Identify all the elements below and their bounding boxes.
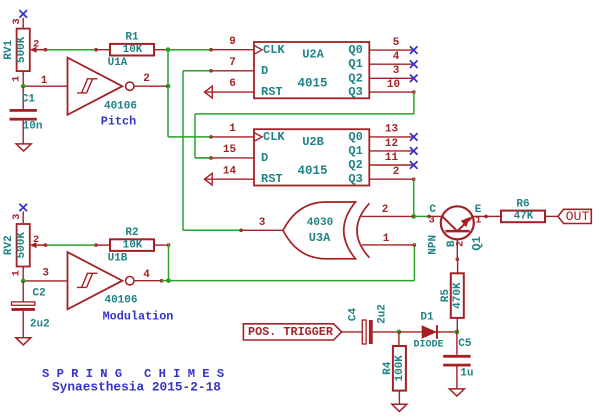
pin name Q1 (U2A) — [348, 57, 362, 71]
subtitle Synaesthesia — [52, 379, 221, 394]
svg-text:7: 7 — [229, 57, 236, 69]
svg-text:11: 11 — [385, 152, 399, 164]
label Q1 — [470, 236, 484, 250]
transistor Q1 (NPN) — [441, 206, 474, 239]
pin 15 of U2B — [211, 157, 254, 159]
resistor R5 — [451, 273, 464, 318]
svg-text:Q1: Q1 — [348, 144, 362, 158]
svg-text:10K: 10K — [123, 44, 143, 56]
wire RV1 wiper to R1 — [46, 49, 97, 51]
value 10K — [123, 44, 143, 56]
svg-text:3: 3 — [11, 214, 23, 220]
svg-text:R1: R1 — [125, 32, 139, 44]
value 500K (RV1) — [16, 36, 28, 63]
svg-text:2: 2 — [33, 39, 39, 51]
svg-text:40106: 40106 — [104, 101, 137, 113]
pin end dots RV1/R1 — [44, 48, 97, 51]
label C2 — [32, 288, 45, 300]
pin 11 Q2 of U2B — [369, 164, 413, 166]
pin name E — [475, 204, 482, 216]
pin 1 of RV1 — [22, 71, 24, 86]
wire E to R6 — [486, 215, 501, 217]
no-connect Q0 U2A — [410, 46, 418, 54]
pin of C1 bottom — [22, 121, 24, 144]
svg-text:DIODE: DIODE — [413, 340, 443, 351]
ground below C2 — [16, 338, 31, 345]
label U3A — [309, 231, 331, 245]
label C5 — [458, 338, 472, 350]
pin number 2 (RV2) — [33, 234, 39, 246]
svg-text:470K: 470K — [452, 282, 464, 309]
svg-text:3: 3 — [259, 217, 266, 229]
label RV2 — [3, 235, 15, 255]
label R4 — [382, 361, 394, 375]
pin name B — [446, 240, 458, 247]
output pin 4 of U1B — [134, 280, 161, 282]
svg-text:Q3: Q3 — [348, 172, 362, 186]
pin 5 Q0 of U2A — [369, 49, 413, 51]
svg-text:U1B: U1B — [108, 253, 128, 265]
pin number 9 — [229, 36, 236, 48]
right pin of R2 — [154, 244, 169, 246]
pin number 6 — [229, 78, 236, 90]
pin name RST (U2B) — [261, 172, 283, 186]
label U1A — [108, 57, 128, 69]
svg-text:4: 4 — [143, 269, 150, 281]
pin name CLK (U2A) — [263, 43, 285, 57]
label R2 — [125, 227, 138, 239]
pin name Q0 (U2A) — [348, 43, 362, 57]
label D1 — [420, 312, 434, 324]
resistor R6 — [501, 211, 545, 223]
value 10K — [123, 239, 143, 251]
pin number 3 (U3A) — [259, 217, 266, 229]
svg-text:1u: 1u — [460, 367, 473, 379]
svg-text:4030: 4030 — [307, 217, 333, 229]
junction U1B output — [166, 278, 171, 283]
pin end dot U1B out — [160, 279, 163, 282]
pin name Q2 (U2B) — [348, 158, 362, 172]
pin number 3 (U1B) — [42, 268, 49, 280]
svg-text:Synaesthesia 2015-2-18: Synaesthesia 2015-2-18 — [52, 379, 221, 394]
wire U2B D green — [195, 157, 211, 159]
label C1 — [22, 94, 36, 106]
value 40106 (U1A) — [104, 101, 137, 113]
pin 4 Q1 of U2A — [369, 63, 413, 65]
label R5 — [440, 289, 452, 303]
svg-text:R6: R6 — [516, 198, 529, 210]
svg-text:1: 1 — [41, 75, 48, 87]
pin number 4 (U1B) — [143, 269, 150, 281]
svg-text:R4: R4 — [382, 361, 394, 375]
pin name Q0 (U2B) — [348, 130, 362, 144]
svg-text:2: 2 — [382, 204, 389, 216]
svg-text:U1A: U1A — [108, 57, 128, 69]
no-connect RV1 pin 3 — [19, 10, 27, 18]
pin 3 Q2 of U2A — [369, 77, 413, 79]
pin number 13 — [385, 124, 399, 136]
svg-text:R2: R2 — [125, 227, 138, 239]
pin number 1 (RV1) — [11, 76, 23, 82]
pin of R4 bottom — [398, 391, 400, 405]
svg-text:500K: 500K — [16, 232, 28, 259]
pin 2 Q3 of U2B — [369, 178, 415, 181]
svg-text:10n: 10n — [23, 121, 43, 133]
svg-text:2: 2 — [393, 166, 400, 178]
pin number 1 (U1A) — [41, 75, 48, 87]
svg-text:NPN: NPN — [427, 235, 439, 255]
value 4015 (U2A) — [297, 77, 327, 91]
svg-text:C4: C4 — [348, 308, 360, 322]
pin end dot R2 right — [167, 244, 170, 247]
title SPRING CHIMES — [42, 367, 224, 381]
value 47K — [514, 211, 534, 223]
ground below R4 — [392, 404, 407, 411]
svg-text:Pitch: Pitch — [101, 115, 136, 129]
output pin 2 of U1A — [134, 85, 168, 87]
value 4030 — [307, 217, 333, 229]
junction C4/R4/D1 — [397, 330, 402, 335]
svg-text:13: 13 — [385, 124, 399, 136]
svg-text:2: 2 — [455, 241, 467, 247]
svg-text:U3A: U3A — [309, 231, 331, 245]
value 2u2 (C4) — [376, 304, 388, 324]
no-connect Q1 U2A — [410, 60, 418, 68]
pin of C2 top — [22, 281, 24, 302]
svg-text:1: 1 — [229, 123, 236, 135]
svg-text:2u2: 2u2 — [30, 318, 50, 330]
op-amp U1B (40106 inverter) — [68, 252, 135, 309]
pin name Q3 (U2A) — [348, 85, 362, 99]
label C4 — [348, 308, 360, 322]
svg-text:12: 12 — [385, 138, 398, 150]
pin 10 Q3 of U2A — [369, 91, 415, 94]
pin name Q2 (U2A) — [348, 71, 362, 85]
diode D1 — [399, 325, 457, 339]
svg-text:Q0: Q0 — [348, 130, 362, 144]
ic U2B box — [254, 129, 369, 185]
pin end dots RV2/R2 — [44, 244, 97, 247]
global label POS. TRIGGER — [243, 324, 341, 340]
ground below C1 — [16, 144, 31, 151]
pin 14 arrow (RST U2B) — [205, 173, 255, 185]
junction Q3B net — [411, 214, 416, 219]
pin number 2 (U3A) — [382, 204, 389, 216]
value 1u — [460, 367, 473, 379]
pin 13 Q0 of U2B — [369, 136, 413, 138]
svg-text:3: 3 — [393, 65, 400, 77]
pin number 3 (RV1) — [11, 18, 23, 24]
svg-text:100K: 100K — [394, 355, 406, 382]
pin of C5 bottom — [456, 367, 458, 389]
svg-text:15: 15 — [223, 144, 237, 156]
pin of R4 top — [398, 332, 400, 346]
wire vertical pitch net — [167, 50, 169, 137]
svg-text:OUT: OUT — [566, 209, 590, 224]
pin number 3 (Q1) — [429, 215, 435, 227]
svg-text:RST: RST — [261, 172, 283, 186]
pin 1 of U2B — [211, 136, 254, 138]
pin 9 of U2A — [211, 49, 254, 51]
svg-text:Modulation: Modulation — [103, 310, 174, 324]
svg-text:R5: R5 — [440, 289, 452, 303]
no-connect Q0 U2B — [410, 133, 418, 141]
svg-text:RV1: RV1 — [3, 40, 15, 60]
capacitor C1 — [10, 109, 37, 121]
svg-text:POS. TRIGGER: POS. TRIGGER — [248, 325, 334, 339]
svg-text:10: 10 — [387, 79, 400, 91]
wire U1B out to XOR pin 1 — [162, 245, 415, 281]
label U2A — [302, 48, 324, 62]
pin number 1 (U3A) — [383, 233, 390, 245]
pin number 5 — [393, 37, 400, 49]
pin number 2 (Q1) — [455, 241, 467, 247]
junction U1A output — [166, 84, 171, 89]
svg-text:9: 9 — [229, 36, 236, 48]
wire trigger to C4 — [342, 331, 362, 333]
pin end dot 1 — [210, 136, 213, 139]
input wire to U1B pin 3 — [23, 280, 67, 282]
svg-text:U2A: U2A — [302, 48, 324, 62]
pin end dot 7 — [210, 70, 213, 73]
value 10n — [23, 121, 43, 133]
svg-text:CLK: CLK — [263, 130, 285, 144]
net name Pitch — [101, 115, 136, 129]
input wire to U1A pin 1 — [23, 85, 67, 87]
pin name CLK (U2B) — [263, 130, 285, 144]
pin 12 Q1 of U2B — [369, 150, 413, 152]
svg-text:3: 3 — [11, 18, 23, 24]
value DIODE — [413, 340, 443, 351]
potentiometer RV1 — [17, 29, 46, 72]
svg-text:3: 3 — [429, 215, 435, 227]
label R1 — [125, 32, 139, 44]
svg-text:4: 4 — [393, 51, 400, 63]
pin number 15 — [223, 144, 237, 156]
wire R2 down to U1B out — [168, 245, 170, 281]
value 4015 (U2B) — [297, 164, 327, 178]
wire to U2B CLK — [168, 136, 211, 138]
svg-text:6: 6 — [229, 78, 236, 90]
label NPN — [427, 235, 439, 255]
svg-text:500K: 500K — [16, 36, 28, 63]
value 40106 (U1B) — [104, 295, 137, 307]
pin number 4 — [393, 51, 400, 63]
inverter U1A (40106 Schmitt) — [68, 58, 135, 115]
svg-text:C5: C5 — [458, 338, 472, 350]
pin 6 arrow (RST U2A) — [205, 86, 255, 98]
svg-text:47K: 47K — [514, 211, 534, 223]
pin number 2 (U2B) — [393, 166, 400, 178]
pin of R5 bottom — [456, 318, 458, 332]
wire XOR out to pitch D — [183, 71, 241, 231]
pin number 10 — [387, 79, 400, 91]
pin number 7 — [229, 57, 236, 69]
left pin of R1 — [96, 49, 110, 51]
pin end dot 9 — [210, 48, 213, 51]
potentiometer RV2 — [17, 224, 46, 267]
svg-text:Q2: Q2 — [348, 158, 362, 172]
wire Q3A feedback — [195, 92, 414, 158]
svg-text:4015: 4015 — [297, 164, 327, 178]
svg-text:C1: C1 — [22, 94, 36, 106]
svg-text:CLK: CLK — [263, 43, 285, 57]
label RV1 — [3, 40, 15, 60]
pin 7 of U2A — [211, 70, 254, 72]
no-connect Q2 U2A — [410, 75, 418, 83]
svg-text:40106: 40106 — [104, 295, 137, 307]
wire C4 to junction — [373, 331, 399, 333]
svg-text:3: 3 — [42, 268, 49, 280]
left pin of R2 — [96, 244, 110, 246]
pin of C1 top — [22, 86, 24, 109]
label U2B — [302, 135, 324, 149]
wire RV2 wiper to R2 — [46, 244, 97, 246]
no-connect Q1 U2B — [410, 147, 418, 155]
pin B of Q1 — [456, 239, 459, 260]
svg-text:D: D — [261, 151, 268, 165]
ground below C5 — [449, 389, 464, 396]
capacitor C2 (polarized) — [12, 302, 35, 311]
label R6 — [516, 198, 529, 210]
no-connect RV2 pin 3 — [19, 204, 27, 212]
wire R1 junction to U2A CLK — [168, 49, 211, 51]
junction RV1 pin1 / C1 / U1A input — [21, 84, 26, 89]
svg-text:C2: C2 — [32, 288, 45, 300]
pin number 11 — [385, 152, 399, 164]
resistor R1 — [110, 44, 154, 56]
pin name D (U2A) — [261, 64, 268, 78]
svg-text:RST: RST — [261, 85, 283, 99]
pin C of Q1 — [428, 215, 443, 218]
pin 3 of U3A (output) — [240, 229, 283, 232]
svg-text:4015: 4015 — [297, 77, 327, 91]
value 100K — [394, 355, 406, 382]
pin E of Q1 — [473, 215, 487, 218]
global label OUT — [558, 209, 591, 224]
junction R1 output — [166, 47, 171, 52]
svg-text:1: 1 — [11, 76, 23, 82]
ic U2A box — [254, 42, 369, 98]
wire Q1 base to R5 — [457, 259, 459, 273]
svg-text:1: 1 — [383, 233, 390, 245]
svg-text:RV2: RV2 — [3, 235, 15, 255]
capacitor C4 (polarized) — [362, 320, 372, 344]
pin name C — [429, 204, 436, 216]
pin name Q3 (U2B) — [348, 172, 362, 186]
pin 1 of U3A — [362, 244, 416, 247]
pin 2 of U3A — [362, 215, 414, 217]
pin number 1 (RV2) — [11, 270, 23, 276]
svg-text:U2B: U2B — [302, 135, 324, 149]
pin 1 of RV2 — [22, 267, 24, 281]
capacitor C5 — [443, 355, 470, 367]
pin number 2 (U1A) — [143, 73, 150, 85]
pin number 12 — [385, 138, 398, 150]
pin number 14 — [223, 165, 237, 177]
pin number 1 (Q1) — [475, 215, 481, 227]
svg-text:Q3: Q3 — [348, 85, 362, 99]
svg-text:Q0: Q0 — [348, 43, 362, 57]
svg-text:1: 1 — [475, 215, 481, 227]
svg-text:2u2: 2u2 — [376, 304, 388, 324]
pin name RST (U2A) — [261, 85, 283, 99]
pin name D (U2B) — [261, 151, 268, 165]
svg-text:Q2: Q2 — [348, 71, 362, 85]
pin number 1 (U2B) — [229, 123, 236, 135]
resistor R2 — [110, 239, 154, 251]
right pin of R1 — [154, 49, 168, 51]
pin number 2 (RV1) — [33, 39, 39, 51]
pin 3 of RV1 — [22, 18, 24, 29]
svg-text:Q1: Q1 — [470, 236, 484, 250]
net name Modulation — [103, 310, 174, 324]
svg-text:14: 14 — [223, 165, 237, 177]
svg-text:D1: D1 — [420, 312, 434, 324]
junction RV2 pin1 / C2 / U1B input — [21, 279, 26, 284]
label U1B — [108, 253, 128, 265]
pin of C2 bottom — [22, 311, 24, 338]
svg-text:2: 2 — [33, 234, 39, 246]
value 500K (RV2) — [16, 232, 28, 259]
wire Q3B to XOR/Q1 — [414, 179, 429, 216]
pin name Q1 (U2B) — [348, 144, 362, 158]
xor gate U3A (4030, mirrored) — [283, 202, 369, 259]
pin of C5 top — [456, 332, 458, 355]
pin number 3 (RV2) — [11, 214, 23, 220]
wire U2A D green — [183, 70, 211, 72]
pin number 3 (U2A) — [393, 65, 400, 77]
svg-text:2: 2 — [143, 73, 150, 85]
no-connect Q2 U2B — [410, 161, 418, 169]
svg-text:5: 5 — [393, 37, 400, 49]
svg-text:1: 1 — [11, 270, 23, 276]
junction D1/R5/C5 — [455, 330, 460, 335]
resistor R4 — [393, 346, 406, 391]
value 470K — [452, 282, 464, 309]
svg-text:D: D — [261, 64, 268, 78]
svg-text:Q1: Q1 — [348, 57, 362, 71]
wire R6 to OUT — [545, 215, 558, 217]
svg-text:10K: 10K — [123, 239, 143, 251]
value 2u2 (C2) — [30, 318, 50, 330]
pin 3 of RV2 — [22, 211, 24, 223]
pin end dot 15 — [210, 157, 213, 160]
